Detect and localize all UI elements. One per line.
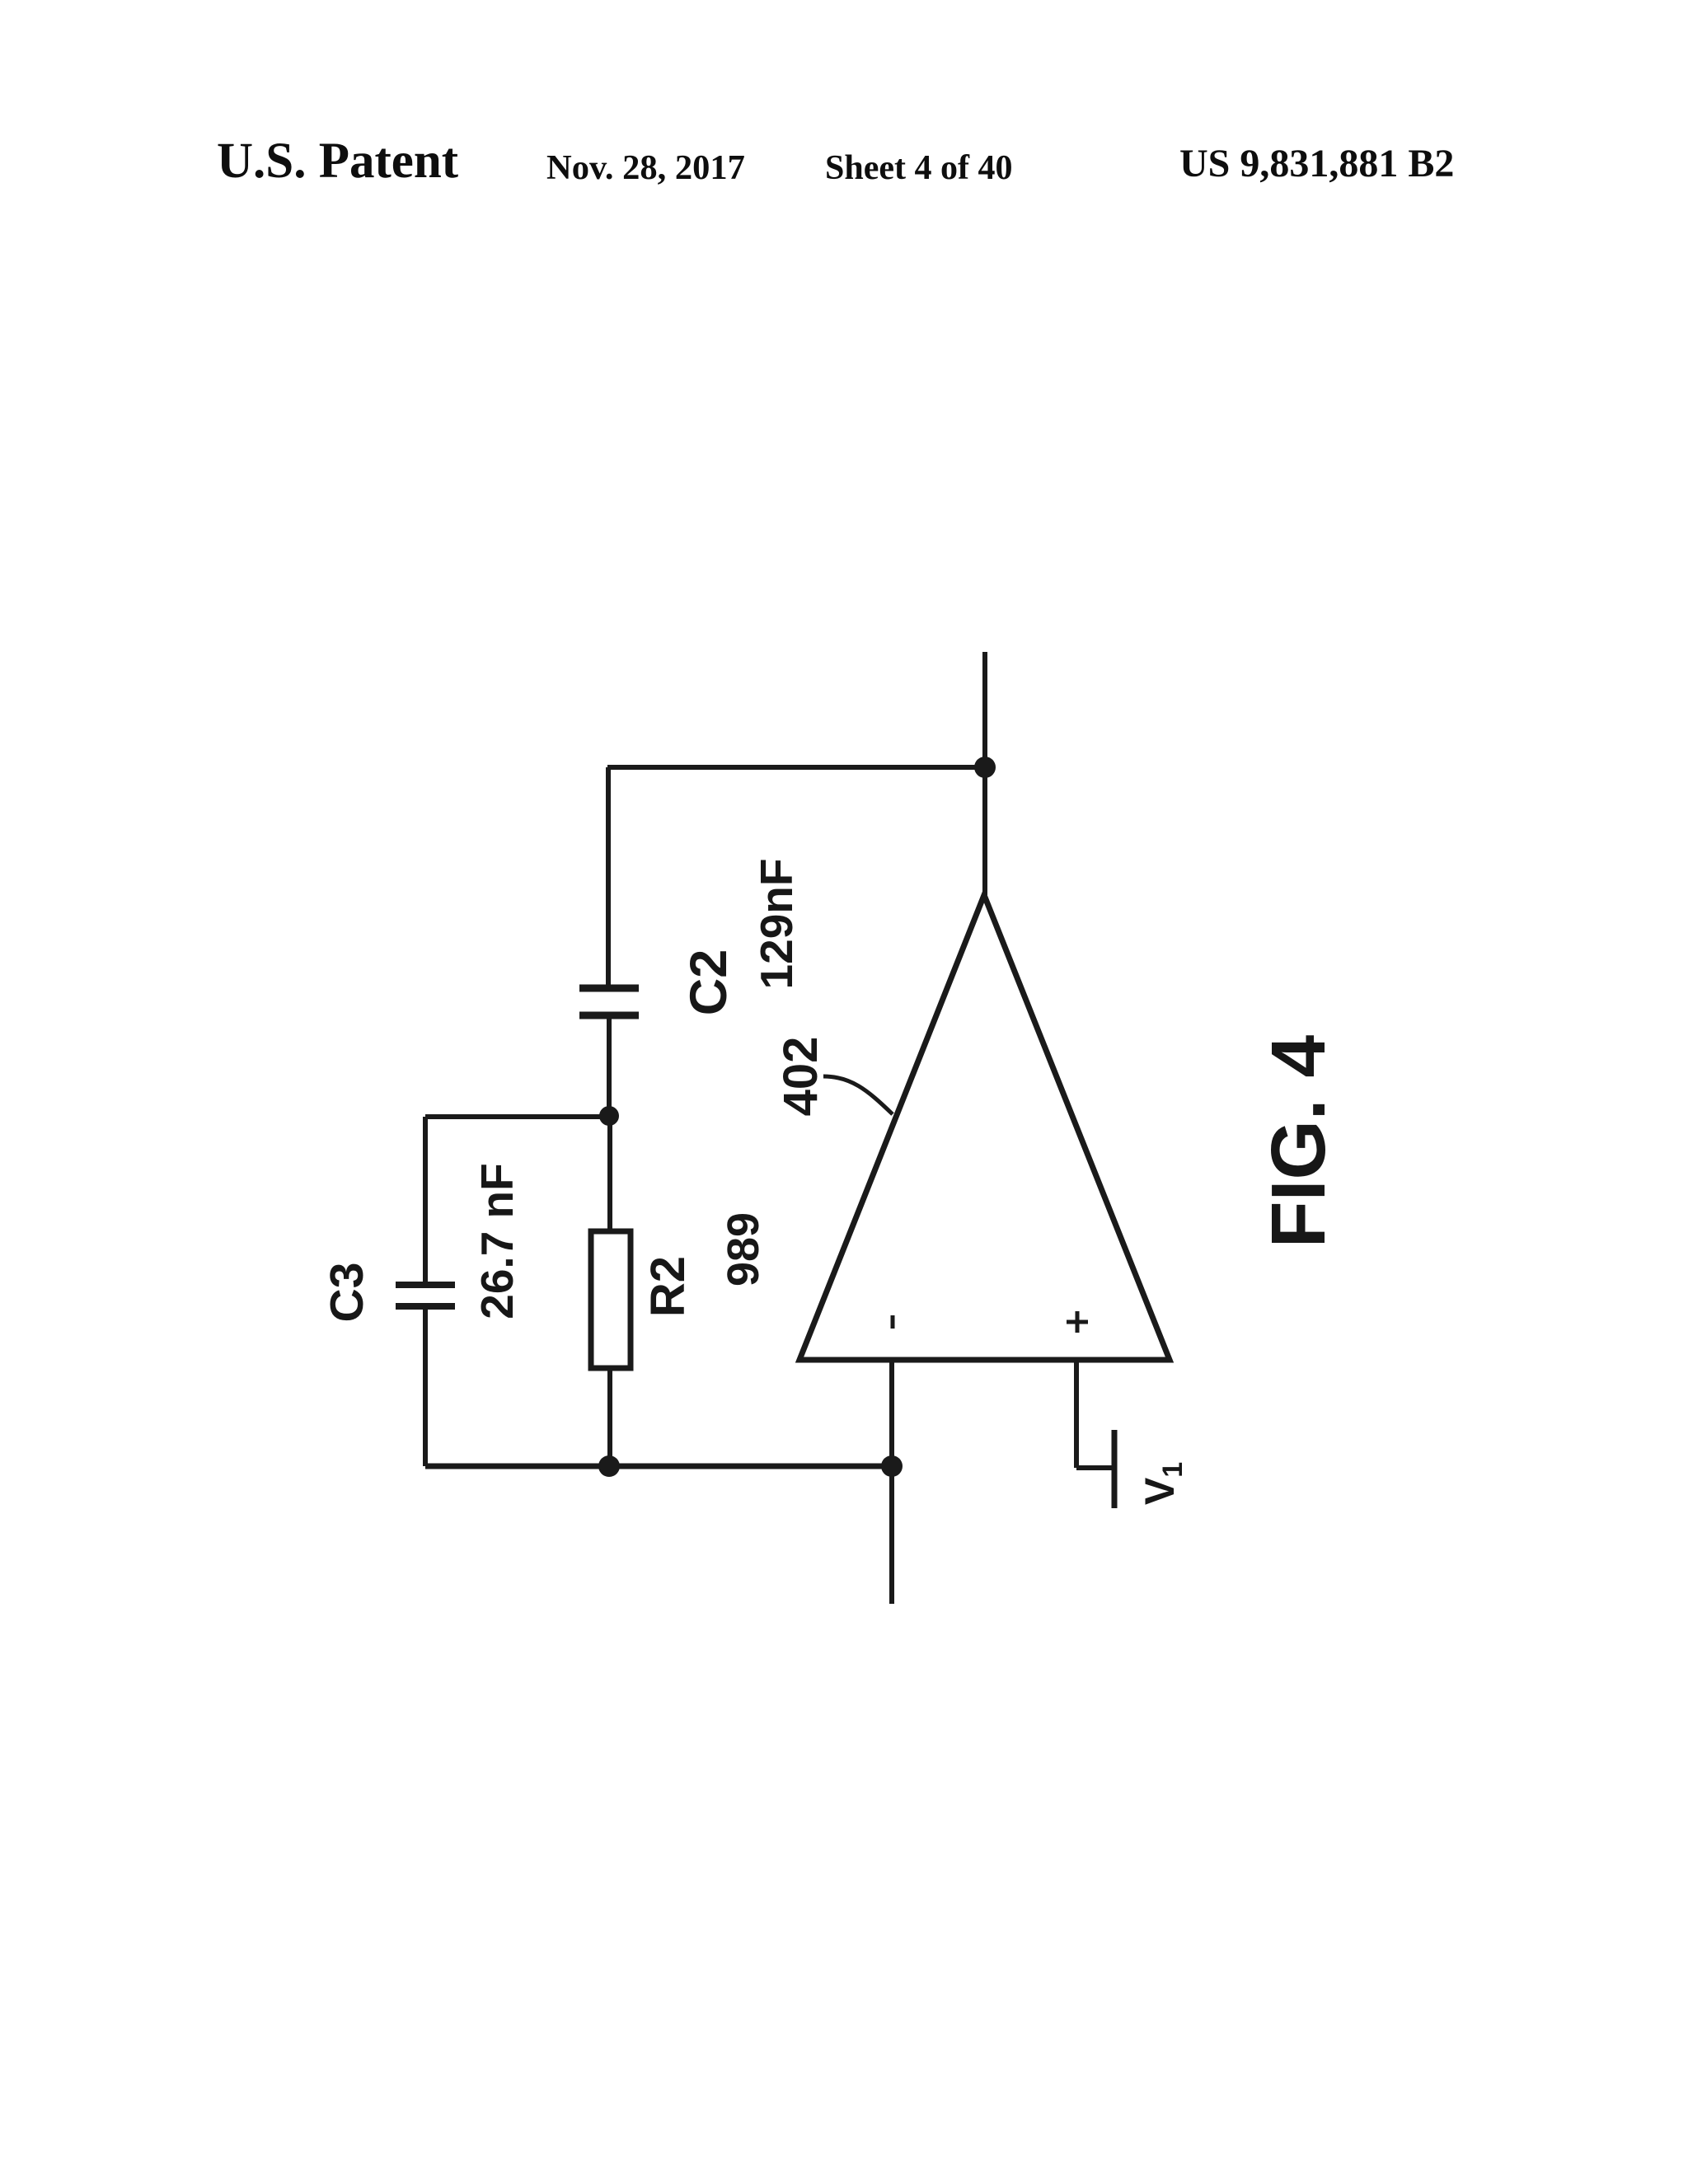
svg-text:R2: R2: [641, 1256, 695, 1317]
wire: to V1 source: [1076, 1465, 1114, 1470]
svg-text:C2: C2: [680, 949, 738, 1016]
wire: input stub below node C: [889, 1466, 894, 1604]
wire: C2 to node A: [607, 1019, 612, 1116]
node: output/feedback junction: [974, 757, 996, 778]
resistor R2: [591, 1231, 631, 1368]
wire: non-inverting input lead: [1074, 1360, 1079, 1468]
wire: inverting input lead: [889, 1358, 894, 1466]
node B: R2 bottom junction: [598, 1455, 620, 1477]
source V1 terminal bar: [1112, 1430, 1118, 1508]
svg-text:US 9,831,881 B2: US 9,831,881 B2: [1179, 142, 1454, 185]
capacitor C3: [396, 1285, 455, 1306]
svg-text:Nov. 28, 2017: Nov. 28, 2017: [546, 148, 745, 187]
svg-text:402: 402: [774, 1037, 828, 1117]
wire: R2 to node B: [607, 1368, 612, 1466]
svg-text:Sheet 4 of 40: Sheet 4 of 40: [825, 149, 1012, 187]
pin label: non-inverting input plus: [1067, 1311, 1088, 1333]
svg-text:C3: C3: [321, 1263, 373, 1323]
wire: bottom horizontal bus: [425, 1464, 892, 1469]
pin label: inverting input minus: [891, 1315, 895, 1329]
node A: R2/C2/C3 top junction: [599, 1106, 619, 1126]
svg-text:U.S. Patent: U.S. Patent: [217, 134, 459, 189]
svg-text:26.7 nF: 26.7 nF: [471, 1163, 523, 1319]
wire: node A to C3 branch horizontal: [425, 1114, 609, 1119]
svg-text:V1: V1: [1137, 1462, 1189, 1505]
wire: feedback top horizontal: [607, 765, 985, 770]
wire: node A to R2: [607, 1116, 612, 1231]
capacitor C2: [579, 988, 639, 1015]
svg-text:FIG. 4: FIG. 4: [1255, 1035, 1341, 1249]
svg-text:989: 989: [719, 1212, 768, 1286]
wire: C3 lower vertical: [423, 1310, 428, 1466]
leader line for 402: [823, 1076, 893, 1114]
wire: feedback left vertical to C2: [606, 767, 611, 986]
op-amp 402 triangle: [799, 895, 1170, 1360]
node C: inverting input junction: [881, 1455, 903, 1477]
svg-text:129nF: 129nF: [751, 859, 802, 990]
wire: C3 upper vertical: [423, 1117, 428, 1283]
wire: op-amp output (vertical): [982, 652, 987, 895]
